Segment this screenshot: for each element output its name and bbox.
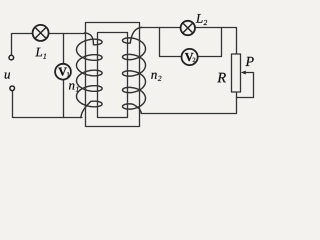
rheostat R body (232, 54, 241, 92)
wire V2 branch (160, 28, 222, 57)
voltmeter V1 (55, 64, 71, 80)
wire secondary bottom (142, 92, 237, 114)
transformer core inner (98, 33, 128, 118)
transformer core outer (86, 23, 140, 127)
label u (5, 73, 10, 79)
label n2 (151, 73, 156, 79)
wire V1 branch vertical (63, 34, 65, 118)
wire lamp L1 to primary winding (41, 33, 85, 35)
label n1 (69, 83, 74, 89)
source terminal upper (9, 55, 14, 60)
wire source top to lamp L1 (12, 34, 33, 56)
label P (245, 57, 253, 66)
label R (217, 73, 226, 82)
secondary winding n2 (123, 27, 146, 113)
wire bottom primary (13, 91, 83, 118)
primary winding n1 (77, 33, 103, 118)
lamp L1 (33, 25, 49, 41)
label L2 (196, 14, 203, 23)
rheostat wiper P (237, 73, 254, 98)
wire secondary top (142, 28, 237, 55)
lamp L2 (181, 21, 195, 35)
label L1 (35, 48, 42, 57)
source terminal lower (10, 86, 15, 91)
voltmeter V2 (182, 49, 198, 65)
